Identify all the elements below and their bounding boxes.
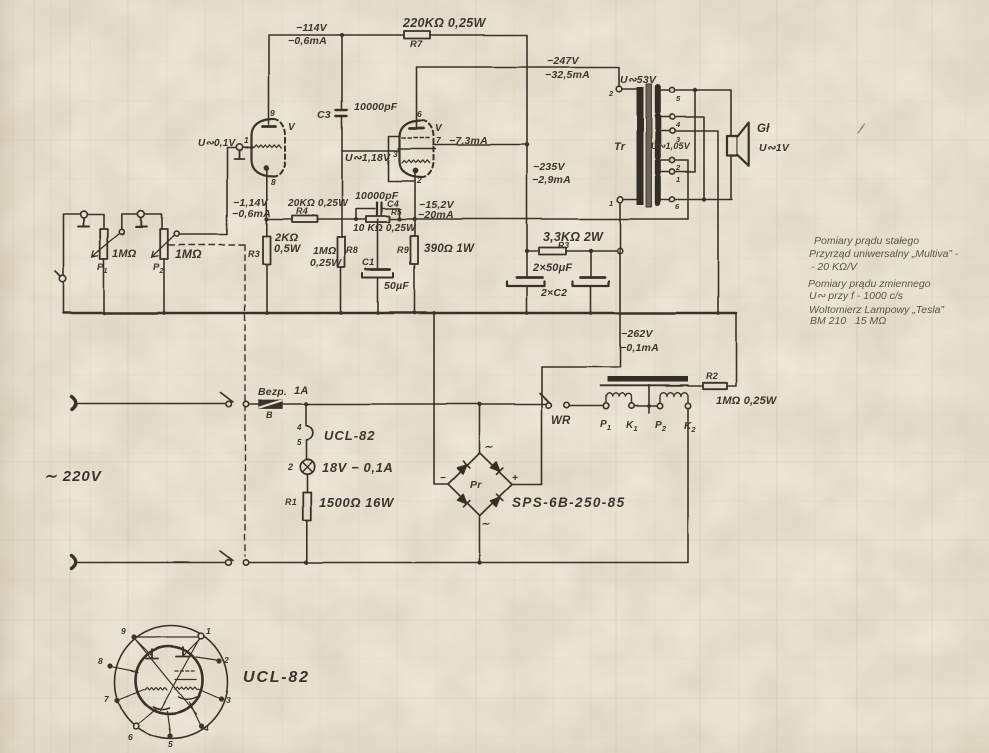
socket heater arc [153,707,169,710]
svg-text:U∾ przy f - 1000 c/s: U∾ przy f - 1000 c/s [809,290,904,302]
svg-text:Gł: Gł [757,123,770,135]
resistor R5 [366,216,390,222]
resistor R3 3.3k [539,248,566,255]
wire grid g1 V2 [342,150,400,152]
svg-text:V: V [435,123,443,134]
socket pin 4 [198,723,203,728]
svg-text:6: 6 [128,732,133,742]
svg-text:B: B [266,410,273,420]
svg-text:2×C2: 2×C2 [540,287,567,299]
socket chord pins 9-1 [137,636,199,638]
svg-text:5: 5 [676,94,681,103]
svg-text:SPS-6B-250-85: SPS-6B-250-85 [512,495,626,510]
resistor R8 [338,237,346,267]
svg-text:1MΩ: 1MΩ [112,248,137,260]
wire R4 to R5 [317,218,366,220]
svg-text:−247V: −247V [547,55,579,67]
svg-text:2: 2 [223,655,229,665]
filter coil 1 [606,393,631,403]
wire cathode V1 down [266,170,268,236]
mains terminal bottom [72,556,76,569]
svg-text:3,3KΩ 2W: 3,3KΩ 2W [543,230,604,244]
svg-text:4: 4 [203,723,209,733]
wire rail corner to R2 [727,313,736,387]
wire R8 to rail [340,267,342,313]
transformer Tr secondary bars [655,87,661,203]
transformer Tr primary bar [637,87,644,205]
wire tap3 to rail [675,131,718,313]
wire B+ to R3b [527,250,539,252]
svg-text:UCL-82: UCL-82 [324,428,376,443]
cathode V1 dot [264,165,270,171]
node screen B+ [525,143,529,147]
svg-text:4: 4 [675,120,681,129]
node R1 bottom [304,560,308,564]
wire K2 to mains N [481,409,688,563]
svg-text:Bezp.: Bezp. [258,386,287,398]
svg-text:1: 1 [244,135,249,145]
svg-text:Pomiary prądu zmiennego: Pomiary prądu zmiennego [808,278,931,290]
wire jack1 left leg [63,215,80,276]
socket pentode screen dashed [175,670,196,672]
svg-text:10000pF: 10000pF [354,101,398,113]
svg-text:Pomiary prądu stałego: Pomiary prądu stałego [814,235,919,247]
wire test jack to rail [62,283,64,314]
socket web pin4 [189,702,200,724]
socket pin labels [98,626,231,749]
socket UCL-82 outer circle [115,626,228,739]
wire tap2 feedback [675,160,688,219]
socket web pin1 [184,639,200,655]
socket pin 5 [167,733,172,738]
wire N to bridge [249,562,480,564]
socket pin 3 [218,696,223,701]
fuse B [259,400,282,408]
wire cathode row left [267,218,292,220]
svg-text:−0,6mA: −0,6mA [232,208,271,220]
wire plate V1 to top rail [269,35,404,126]
wire K1 to P2 [634,405,658,407]
svg-text:1: 1 [676,175,680,184]
tap 1 [669,169,674,174]
anode V2 [410,127,424,130]
wire P2 to rail [163,259,165,313]
heater string wire [305,404,307,424]
svg-text:U∾53V: U∾53V [620,74,657,86]
svg-text:3: 3 [676,135,681,144]
svg-text:Tr: Tr [614,141,626,153]
pentode V2 envelope dashed [422,120,434,177]
node B+ filter left [525,249,529,253]
svg-text:9: 9 [270,108,275,118]
capacitor C2a [526,251,528,277]
svg-text:390Ω 1W: 390Ω 1W [424,243,475,255]
wire to C3 [341,35,343,109]
wire R7 to B+ corner [430,34,527,36]
cathode V2 dot [413,168,419,174]
svg-text:C3: C3 [317,109,331,121]
transformer Tr core [646,84,652,207]
socket web pin8 [113,667,139,672]
svg-text:4: 4 [296,423,302,432]
svg-text:1MΩ: 1MΩ [175,247,202,261]
node cathode V2 [413,217,417,221]
input jack grid V1 [236,144,242,150]
svg-text:2: 2 [608,89,614,98]
wire tap5 to speaker [675,90,731,136]
svg-text:−32,5mA: −32,5mA [545,69,590,81]
svg-text:1MΩ: 1MΩ [313,245,336,257]
wire tap4 down [675,117,704,199]
socket pentode grid zigzag [175,687,197,690]
filter coil 2 [660,393,688,404]
wire R3b to raw node [566,250,618,252]
svg-text:−0,6mA: −0,6mA [288,35,327,47]
svg-text:10 KΩ 0,25W: 10 KΩ 0,25W [353,223,417,234]
resistor R1 [303,492,311,520]
speaker Gl box [727,136,738,156]
svg-text:BM 210 15 MΩ: BM 210 15 MΩ [810,315,886,327]
wire P2 wiper to grid jack [179,148,236,235]
svg-text:2: 2 [416,175,422,185]
svg-text:6: 6 [417,109,422,119]
socket pin 6 [133,723,139,729]
wire B+ vertical [526,35,528,251]
resistor R7 [404,31,430,39]
svg-text:R2: R2 [706,371,718,381]
svg-text:Przyrząd uniwersalny „Multiva”: Przyrząd uniwersalny „Multiva” - [809,248,959,260]
grid V1 zigzag [254,145,282,148]
svg-text:C1: C1 [362,257,375,268]
svg-text:3: 3 [226,695,231,705]
potentiometer P2 [160,229,168,259]
input jack 1 [80,211,87,218]
potentiometer P1 [100,229,108,259]
socket web pin5 [167,711,170,733]
svg-text:R9: R9 [397,245,409,255]
svg-text:6: 6 [675,202,680,211]
socket pin 9 [131,634,136,639]
svg-text:9: 9 [121,626,126,636]
node tap5 link [693,88,697,92]
heater UCL-82 [306,426,312,441]
wire jack2 to P2 [145,214,162,229]
core center tap [648,385,650,413]
node R5 left [354,217,358,221]
wire link tap5 to tap1 [675,90,695,172]
socket triode grid zigzag [145,687,167,690]
svg-text:- 20 KΩ/V: - 20 KΩ/V [811,261,858,273]
rectifier Pr diamond [448,453,512,516]
svg-text:−0,1mA: −0,1mA [620,342,659,354]
capacitor C4 stubs [356,209,400,220]
socket triode anode [146,649,158,659]
svg-text:−114V: −114V [296,22,328,34]
svg-text:∼ 220V: ∼ 220V [44,468,103,485]
node cathode V1 [265,217,269,221]
wire screen V2 to B+ [433,144,527,146]
wire fuse to WR [282,403,546,405]
node tap4 to tap6 wire [702,197,706,201]
svg-text:R5: R5 [391,208,402,217]
svg-text:R3: R3 [558,240,569,250]
svg-text:U∾0,1V: U∾0,1V [198,138,237,149]
node C3 tap [340,33,344,37]
socket pin 8 [107,663,112,668]
wire grid node to R8 [341,151,343,238]
ground rail [63,312,736,315]
wire R3 to rail [266,264,268,313]
svg-text:18V − 0,1A: 18V − 0,1A [322,460,393,475]
node bridge AC top [477,402,481,406]
wire anode V2 to primary [417,67,620,128]
node C2b tap [589,249,593,253]
node raw B+ junction [617,248,623,254]
socket pin 1 [198,633,204,639]
resistor R9 [411,236,419,264]
pentode V2 envelope solid [400,120,423,177]
bracket g3 to cathode V2 [389,136,416,181]
wire mains L [79,403,226,405]
wire bridge AC top lead [479,404,481,452]
wire jack to grid [243,147,254,149]
svg-text:R7: R7 [410,39,423,50]
node R5 right [398,217,402,221]
svg-text:3: 3 [393,149,398,159]
wire jack1 to P1 [87,215,104,230]
svg-text:2: 2 [287,462,293,472]
wire raw B+ to bridge plus [542,202,620,484]
wire bridge plus lead [512,483,542,485]
wire bridge AC bottom lead [479,516,481,563]
svg-text:R3: R3 [248,249,260,259]
screen grid V2 dashed [402,137,429,139]
svg-text:Pr: Pr [470,479,482,491]
filter core bar [607,377,688,383]
socket pin 2 [216,658,221,663]
svg-text:∼: ∼ [481,519,490,530]
rail node dots [102,311,720,315]
svg-text:1A: 1A [294,385,308,397]
grid V2 zigzag [402,160,430,163]
tap 3 [669,128,674,133]
socket web pin6 [138,708,156,724]
terminal 2 primary top [616,86,622,92]
anode V1 [263,126,277,129]
capacitor C4 [377,203,382,215]
svg-text:2: 2 [675,163,681,172]
socket web pin1 long [160,639,200,711]
wire feedback row [390,218,688,220]
switch WR [546,402,551,407]
note line 1 [808,235,959,327]
terminal 1 primary bottom [617,197,623,203]
socket pentode anode [176,647,190,657]
socket web pin3 [198,689,219,698]
svg-text:1MΩ 0,25W: 1MΩ 0,25W [716,395,778,407]
svg-text:−7,3mA: −7,3mA [449,135,488,147]
diode D4 [490,494,503,507]
socket tube envelope [136,647,203,714]
socket web pin9 [136,640,152,656]
diode D1 [457,461,470,474]
svg-text:R8: R8 [346,245,358,255]
svg-text:−20mA: −20mA [418,209,454,221]
resistor R2 [703,383,727,389]
socket web pin9 long [136,640,197,715]
wire heater to lamp [305,440,307,460]
socket web pin2 [196,657,217,660]
coupling dashed link [169,245,245,556]
wire P1 wiper to jack2 [122,214,138,229]
wire cathode V2 down [414,172,416,236]
schematic ink [55,31,865,739]
wire P1 to rail [103,259,105,313]
svg-text:U∾1V: U∾1V [759,142,790,154]
svg-text:0,25W: 0,25W [310,257,342,269]
diode D3 [457,494,470,507]
triode V1 envelope dashed [274,120,286,177]
speaker Gl cone [738,123,749,166]
svg-text:−2,9mA: −2,9mA [532,174,571,186]
svg-text:WR: WR [551,415,571,427]
triode V1 envelope solid [252,120,275,177]
wire WR to P1 coil [569,405,603,407]
tap 4 [669,114,674,119]
tap 6 [669,196,674,201]
wire C1 to rail [377,278,379,313]
node center tap [647,404,651,408]
svg-text:−: − [440,473,446,484]
resistor R4 [292,216,317,223]
svg-text:5: 5 [168,739,173,749]
svg-text:1: 1 [206,626,211,636]
svg-text:1500Ω 16W: 1500Ω 16W [319,495,395,510]
socket pin 7 [114,697,119,702]
resistor R3 cathode [263,236,271,264]
wire bridge minus to rail [434,313,448,484]
node heater tap [304,402,308,406]
tap 5 [669,87,674,92]
capacitor C1 [366,268,390,271]
wire mains N [79,562,226,564]
mains terminal top [72,397,76,410]
svg-text:UCL-82: UCL-82 [243,669,310,686]
svg-text:U∾1,18V: U∾1,18V [345,152,391,164]
wire R1 to mains N [306,520,308,563]
svg-text:+: + [512,473,518,484]
svg-text:−262V: −262V [621,328,653,340]
svg-text:8: 8 [98,656,103,666]
svg-text:5: 5 [297,438,302,447]
socket web pin7 [120,689,145,699]
lamp 18V [300,460,314,474]
diode D2 [490,461,503,474]
wire tap6 to speaker bottom [675,155,732,199]
socket pentode beam line [175,679,196,681]
svg-text:∼: ∼ [484,442,493,453]
node bridge AC bottom [477,560,481,564]
stray mark [858,124,865,133]
tap 2 [669,157,674,162]
test jack left [59,276,66,283]
svg-text:U∾1,05V: U∾1,05V [651,141,691,151]
capacitor C2b [590,251,592,277]
svg-text:V: V [288,122,296,133]
wire switch to fuse [249,403,259,405]
switch S1a [226,401,231,406]
beam plate line V2 [398,148,436,150]
wire C1 top [377,219,379,269]
svg-text:50µF: 50µF [384,280,409,292]
wire R9 to rail [414,264,416,313]
wire lamp to R1 [306,474,308,492]
wire core to R2 [688,386,703,388]
capacitor C3 [336,110,347,116]
socket pentode cathode arc [178,697,196,699]
input jack 2 [138,211,145,218]
svg-text:1: 1 [609,199,613,208]
svg-text:2×50μF: 2×50μF [532,262,572,274]
svg-text:R4: R4 [296,206,308,216]
svg-text:R1: R1 [285,497,297,507]
svg-text:220KΩ 0,25W: 220KΩ 0,25W [402,16,486,30]
svg-text:0,5W: 0,5W [274,243,302,255]
wire C3 to grid node [341,116,343,151]
switch S1b [226,560,231,565]
svg-text:8: 8 [271,177,276,187]
svg-text:−235V: −235V [533,161,565,173]
filter coil terminals P1 K1 P2 K2 [603,403,608,408]
